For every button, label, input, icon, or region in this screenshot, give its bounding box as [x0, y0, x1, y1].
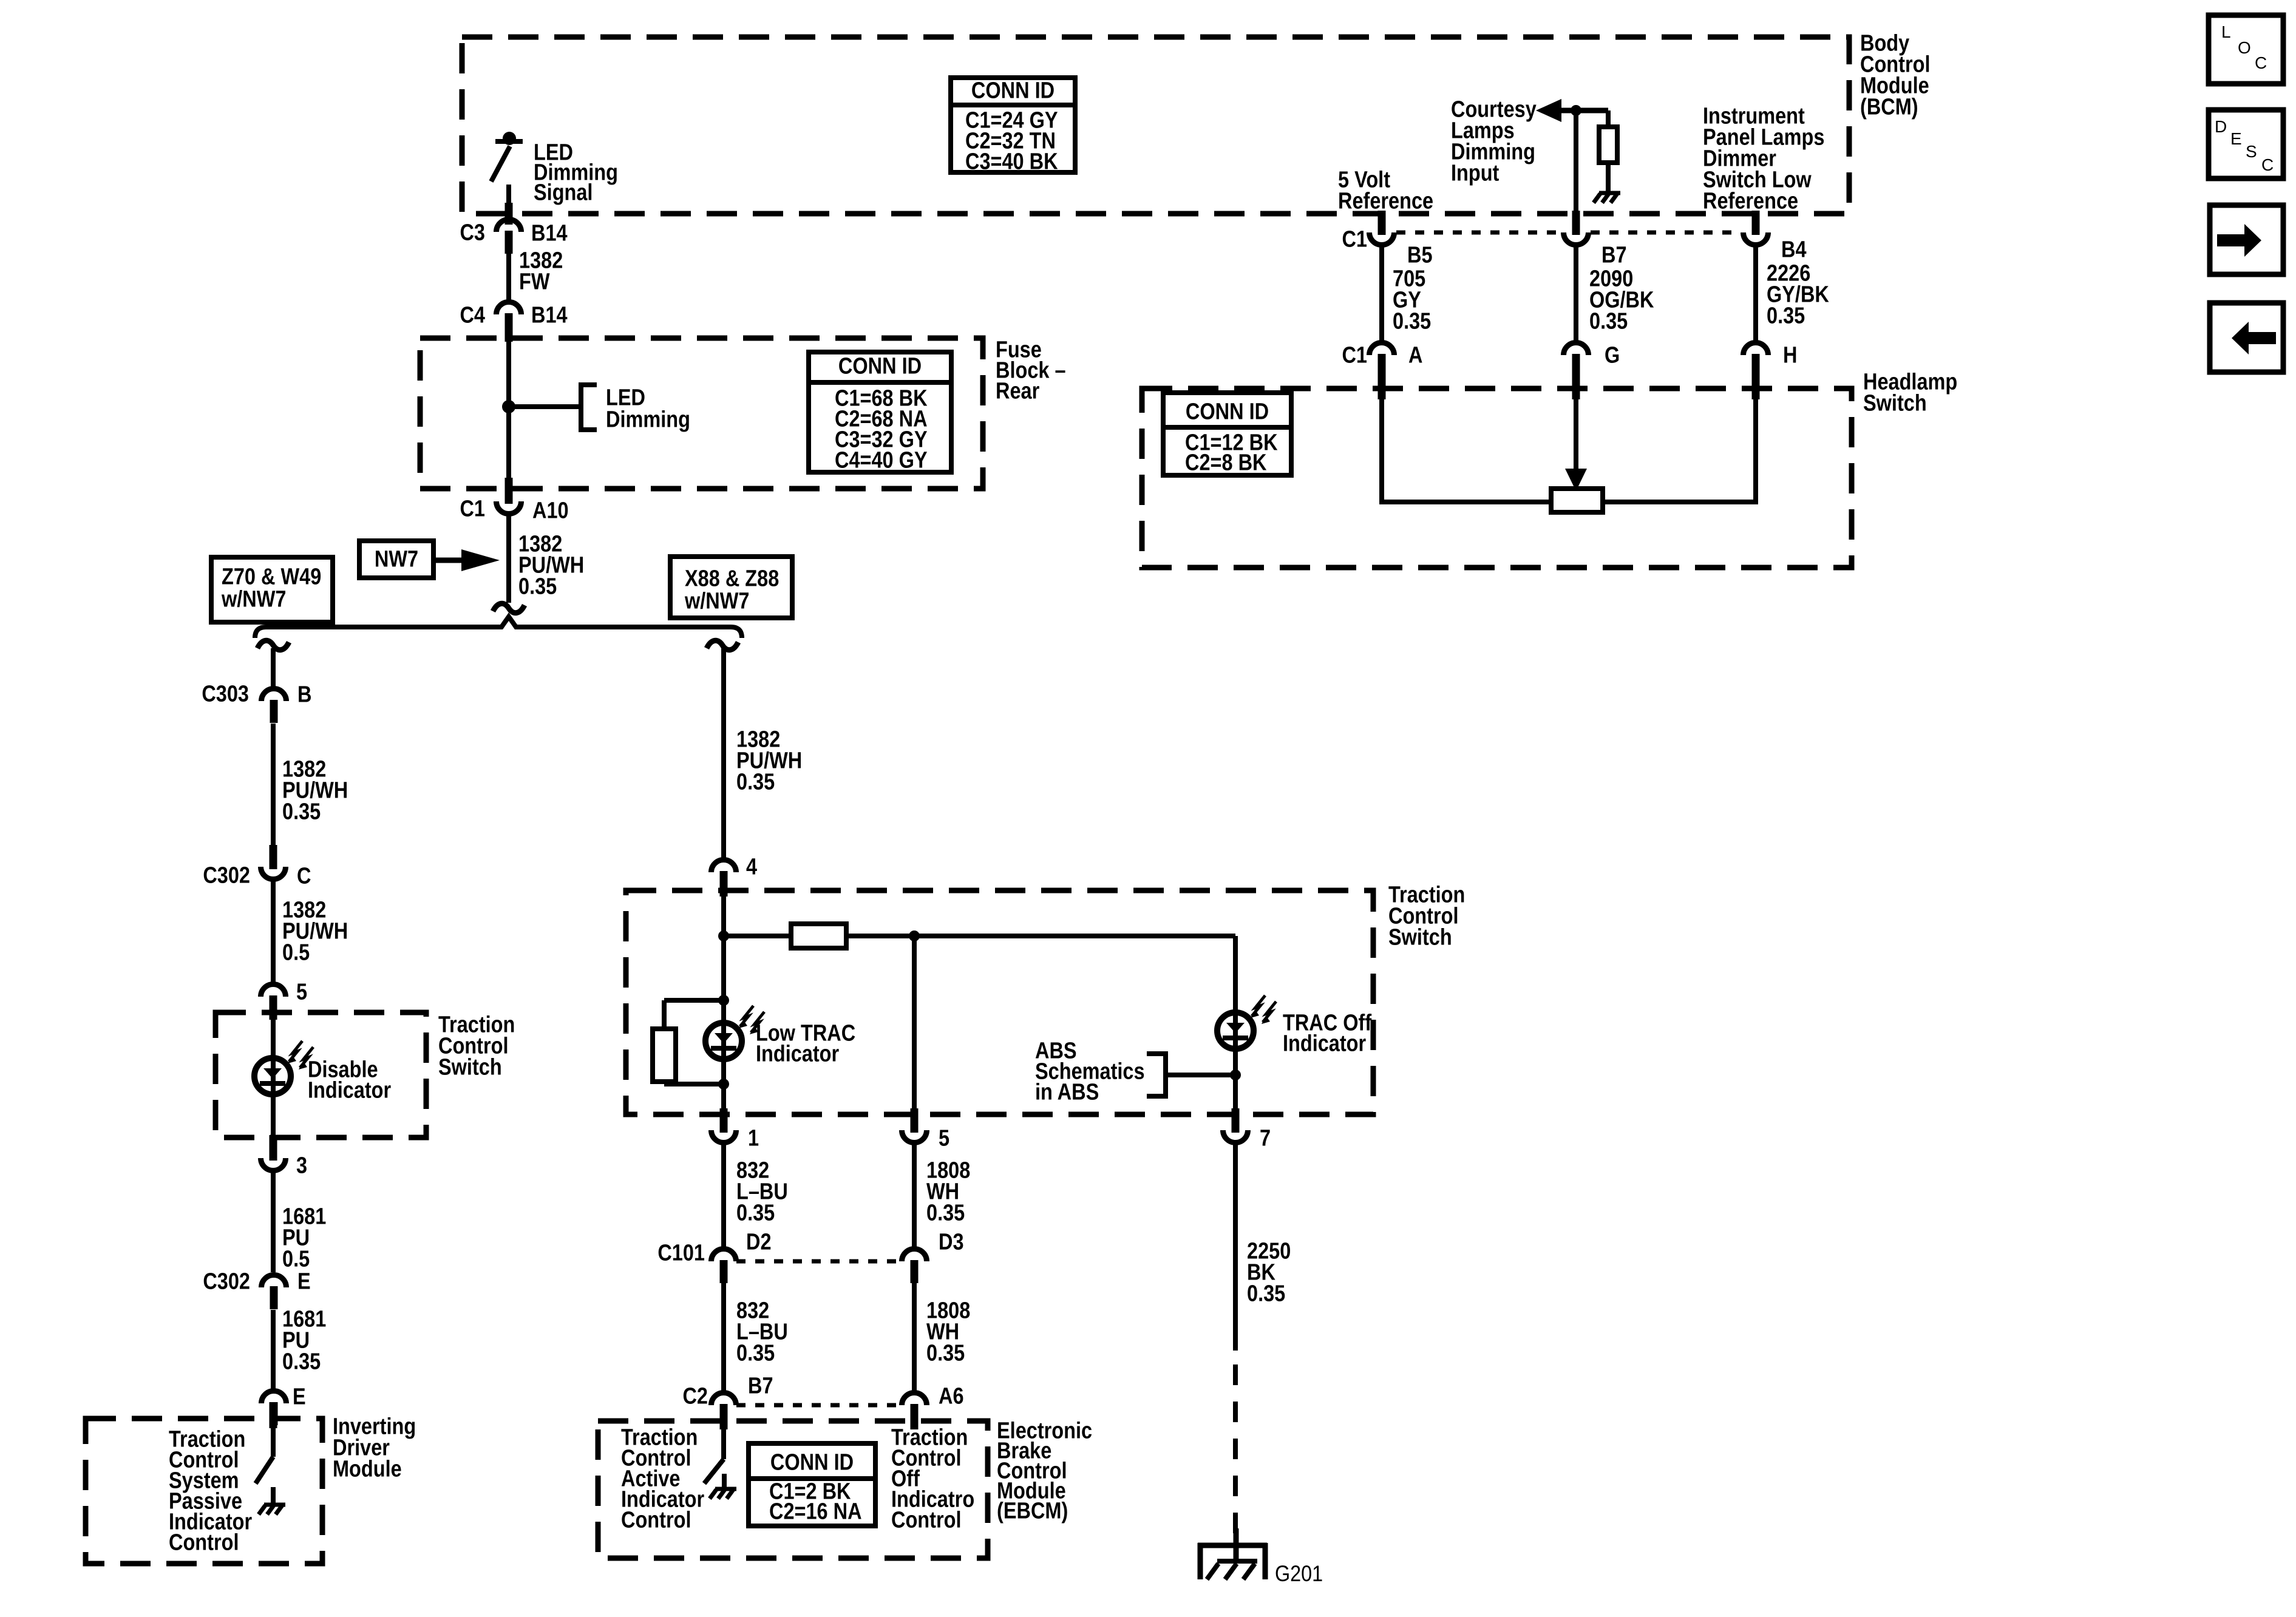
label Z70 & W49 w/NW7: [221, 564, 321, 612]
wire to internal resistor: [1606, 110, 1611, 127]
label C302 (C): [203, 863, 250, 888]
bracket ABS Schematics in ABS: [1147, 1051, 1166, 1099]
wire label 1382 PU/WH 0.35 (middle): [736, 727, 802, 795]
ground (IDM internal): [259, 1505, 285, 1514]
wire through Disable Indicator: [271, 1017, 276, 1137]
wire to parallel resistor: [664, 998, 724, 1003]
wire label 705 GY 0.35: [1393, 266, 1431, 334]
junction ABS wire: [1230, 1070, 1241, 1080]
label Fuse Block - Rear: [996, 337, 1066, 404]
connector pin 1: [712, 1108, 736, 1142]
connector B5: [1370, 211, 1394, 245]
label B14 (C3): [531, 220, 568, 246]
svg-text:5: 5: [296, 979, 307, 1005]
wire H to potentiometer: [1604, 395, 1756, 502]
wire parallel resistor bottom: [664, 1082, 724, 1086]
label C4: [460, 302, 485, 328]
Traction Control Switch (disable) dashed box: [216, 1012, 426, 1137]
svg-text:C: C: [297, 863, 311, 889]
wire C303 to C302: [271, 724, 276, 849]
wire label 832 L-BU 0.35 (lower): [736, 1298, 788, 1366]
svg-text:C302: C302: [203, 1269, 250, 1294]
svg-text:C1: C1: [1342, 226, 1367, 252]
connector C2 B7: [712, 1393, 736, 1428]
wire through TRAC Off indicator: [1233, 936, 1238, 1114]
svg-text:L: L: [2221, 22, 2231, 41]
CONN ID table (Headlamp Switch): [1163, 393, 1291, 475]
label Body Control Module (BCM): [1860, 30, 1930, 120]
label C1 (A10): [460, 496, 485, 521]
switch Traction Control Active Indicator Control: [704, 1428, 724, 1488]
connector A: [1370, 343, 1394, 378]
svg-text:C302: C302: [203, 863, 250, 888]
svg-text:E: E: [297, 1269, 311, 1294]
svg-text:B14: B14: [531, 302, 568, 328]
connector C3 B14: [497, 220, 521, 254]
label 5 Volt Reference: [1338, 167, 1433, 214]
junction courtesy lamps: [1571, 105, 1581, 116]
connector line C1 (BCM) left span: [1396, 231, 1561, 235]
svg-text:4: 4: [746, 854, 757, 880]
wire 7 to hidden splice: [1233, 1144, 1238, 1351]
label LED Dimming: [606, 385, 690, 432]
indicator arrows (Low TRAC): [739, 1006, 764, 1034]
Fuse Block - Rear dashed box: [420, 338, 983, 489]
wire label 1382 FW: [519, 248, 563, 294]
button LOC: [2209, 15, 2283, 84]
label TRAC Off Indicator: [1283, 1010, 1371, 1056]
svg-text:B4: B4: [1781, 237, 1807, 262]
wire 1382 FW C3 to C4: [506, 253, 511, 302]
svg-text:O: O: [2238, 38, 2251, 57]
svg-text:A6: A6: [939, 1383, 964, 1409]
label C303: [202, 681, 249, 707]
connector C302 E: [262, 1275, 287, 1310]
label C302 (E): [203, 1269, 250, 1294]
pin crossing TCS border (4): [720, 871, 728, 897]
svg-text:C1: C1: [460, 496, 485, 521]
CONN ID table (BCM): [951, 78, 1075, 174]
svg-text:A: A: [1408, 342, 1422, 368]
label Traction Control Off Indicatro Control: [891, 1425, 974, 1533]
connector C4 B14: [497, 302, 521, 336]
resistor (traction control switch): [791, 924, 846, 948]
Electronic Brake Control Module (EBCM) dashed box: [598, 1421, 988, 1558]
svg-text:B7: B7: [1601, 242, 1627, 268]
pin crossing EBCM border (A6): [911, 1404, 919, 1429]
option split brace: [255, 617, 742, 638]
label E (C302): [297, 1269, 311, 1294]
wire C302 to pin 5: [271, 880, 276, 984]
connector C1 A10: [497, 480, 521, 514]
resistor (parallel with Low TRAC LED): [653, 1029, 676, 1082]
connector B7: [1564, 211, 1589, 245]
svg-text:5: 5: [939, 1125, 949, 1151]
Inverting Driver Module dashed box: [86, 1419, 322, 1564]
label Disable Indicator: [308, 1057, 391, 1103]
Traction Control Switch dashed box: [626, 890, 1373, 1114]
wire B5 to A: [1379, 246, 1384, 341]
CONN ID table (Fuse Block): [809, 352, 951, 473]
label 5: [296, 979, 307, 1005]
svg-text:C3: C3: [460, 220, 485, 245]
label A10: [532, 498, 569, 523]
svg-text:E: E: [293, 1384, 306, 1409]
wire label 832 L-BU 0.35 (upper): [736, 1158, 788, 1225]
wire label 1808 WH 0.35 (upper): [926, 1158, 970, 1225]
svg-text:B: B: [297, 682, 311, 707]
label ABS Schematics in ABS: [1035, 1038, 1145, 1105]
label H: [1783, 342, 1797, 368]
svg-text:CONN ID: CONN ID: [971, 78, 1055, 103]
wire resistor to TRAC Off branch: [846, 934, 1235, 938]
wire D2 to C2 B7: [721, 1283, 726, 1391]
button back arrow: [2210, 303, 2283, 372]
svg-text:B5: B5: [1407, 242, 1433, 268]
ground (EBCM internal): [710, 1489, 736, 1499]
label C2: [682, 1383, 708, 1409]
label 4: [746, 854, 757, 880]
wire inside fuse block: [506, 340, 511, 480]
svg-text:3: 3: [296, 1153, 307, 1178]
label Traction Control Switch (right): [1388, 882, 1465, 950]
CONN ID table (EBCM): [749, 1443, 875, 1526]
connector line C1 (BCM) right span: [1591, 231, 1741, 235]
wire B4 to H: [1753, 246, 1758, 341]
svg-text:B7: B7: [748, 1373, 773, 1398]
switch Traction Control System Passive Indicator Control: [256, 1426, 273, 1503]
label A6: [939, 1383, 964, 1409]
svg-text:C2: C2: [682, 1383, 708, 1409]
wire label 2250 BK 0.35: [1247, 1238, 1291, 1306]
connector E (IDM): [262, 1391, 287, 1426]
label 1: [748, 1125, 759, 1151]
wire label 1382 PU/WH 0.5: [282, 897, 348, 965]
wire B7 to G: [1574, 246, 1578, 341]
continuation squiggle (top): [493, 603, 525, 612]
svg-text:1: 1: [748, 1125, 759, 1151]
label Courtesy Lamps Dimming Input: [1451, 97, 1537, 186]
button DESC: [2209, 110, 2283, 178]
wire ABS to TRAC Off indicator: [1166, 1073, 1235, 1077]
wire through Low TRAC indicator: [721, 893, 726, 1114]
svg-text:TRAC OffIndicator: TRAC OffIndicator: [1283, 1010, 1371, 1056]
wire label 2090 OG/BK 0.35: [1589, 266, 1654, 334]
wire 1 to C101 D2: [721, 1144, 726, 1247]
wire to option split: [506, 515, 511, 603]
potentiometer (headlamp switch): [1551, 489, 1603, 512]
ground G201: [1198, 1528, 1267, 1579]
pin crossing fuse block bottom border: [505, 478, 513, 504]
label C3: [460, 220, 485, 245]
wire resistor to ground: [1606, 163, 1611, 193]
Headlamp Switch dashed box: [1142, 388, 1852, 568]
wire label 1681 PU 0.35: [282, 1306, 326, 1374]
ground (BCM internal): [1594, 193, 1620, 203]
svg-text:C3=40 BK: C3=40 BK: [965, 149, 1058, 174]
wire label 1382 PU/WH 0.35 (left): [282, 756, 348, 824]
switch LED Dimming Signal (in BCM): [491, 132, 523, 205]
junction parallel resistor top: [718, 995, 729, 1006]
label NW7: [375, 546, 418, 572]
svg-text:CONN ID: CONN ID: [770, 1449, 854, 1475]
wire label 1382 PU/WH 0.35 (top): [518, 531, 584, 599]
wire C302 E to E: [271, 1310, 276, 1389]
svg-text:C: C: [2261, 155, 2274, 174]
arrow wiper (headlamp switch): [1565, 395, 1587, 491]
connector C101 D3: [902, 1249, 927, 1284]
pin crossing IDM border: [270, 1402, 277, 1428]
wire pin crossing BCM border: [505, 203, 513, 225]
connector line C101: [736, 1259, 901, 1264]
svg-text:G: G: [1605, 342, 1620, 368]
continuation squiggle (right branch): [707, 640, 738, 649]
LED TRAC Off Indicator: [1217, 1012, 1254, 1049]
label B4: [1781, 237, 1807, 262]
label 7: [1260, 1125, 1271, 1151]
svg-text:C4=40 GY: C4=40 GY: [835, 447, 928, 473]
junction parallel resistor bottom: [718, 1079, 729, 1090]
svg-text:H: H: [1783, 342, 1797, 368]
bracket LED Dimming: [581, 382, 597, 432]
label B: [297, 682, 311, 707]
svg-text:C1: C1: [1342, 342, 1367, 368]
svg-text:S: S: [2246, 142, 2257, 161]
junction to pin 5 wire: [909, 931, 920, 941]
wire label 2226 GY/BK 0.35: [1767, 260, 1829, 328]
label B5: [1407, 242, 1433, 268]
wire 5 to D3: [912, 1144, 917, 1247]
label Instrument Panel Lamps Dimmer Switch Low Reference: [1703, 103, 1824, 214]
pin crossing fuse block border: [505, 313, 513, 342]
label Traction Control Active Indicator Control: [621, 1425, 704, 1533]
label C1 (A row): [1342, 342, 1367, 368]
connector pin 7: [1223, 1108, 1248, 1142]
wire 1382 PU/WH to traction control switch: [721, 648, 726, 858]
wire (unshown) to G201: [1233, 1364, 1238, 1548]
svg-text:7: 7: [1260, 1125, 1271, 1151]
wire label 1681 PU 0.5: [282, 1204, 326, 1272]
label LED Dimming Signal: [534, 140, 618, 205]
svg-text:A10: A10: [532, 498, 569, 523]
wire 3 to C302 E: [271, 1171, 276, 1272]
label Electronic Brake Control Module (EBCM): [997, 1418, 1092, 1524]
wire to resistor: [724, 934, 791, 938]
svg-text:C4: C4: [460, 302, 485, 328]
label Low TRAC Indicator: [756, 1020, 855, 1066]
label 5 (EBCM): [939, 1125, 949, 1151]
pin crossing TCS bottom border: [270, 1135, 277, 1161]
connector H: [1744, 343, 1768, 378]
pin crossing headlamp border (A): [1378, 375, 1386, 399]
NW7 box: [359, 541, 433, 578]
label E (IDM): [293, 1384, 306, 1409]
svg-text:CONN ID: CONN ID: [1186, 399, 1269, 424]
connector pin 5 (switch): [261, 984, 286, 1019]
wire junction to pin 5 (EBCM): [912, 936, 917, 1114]
indicator arrows (Disable): [288, 1041, 313, 1070]
connector C101 D2: [712, 1249, 736, 1284]
connector pin 5 (EBCM): [902, 1108, 927, 1142]
label C1 (B5 row): [1342, 226, 1367, 252]
wire label 1808 WH 0.35 (lower): [926, 1298, 970, 1366]
svg-text:C2=8 BK: C2=8 BK: [1185, 450, 1267, 475]
label G: [1605, 342, 1620, 368]
connector C303 B: [262, 689, 287, 724]
wire tap to LED Dimming: [509, 404, 579, 409]
connector line C2/A6: [736, 1403, 901, 1408]
LED Disable Indicator: [254, 1058, 291, 1094]
junction at resistor branch: [718, 931, 729, 941]
label A: [1408, 342, 1422, 368]
label Traction Control System Passive Indicator Control: [169, 1426, 252, 1555]
pin crossing headlamp border (G): [1572, 375, 1580, 399]
wire D3 to A6: [912, 1283, 917, 1391]
svg-text:D3: D3: [939, 1229, 964, 1255]
svg-text:C: C: [2255, 53, 2267, 72]
label X88 & Z88 w/NW7: [684, 566, 779, 614]
pin crossing EBCM border: [720, 1404, 728, 1429]
svg-text:E: E: [2230, 129, 2242, 148]
label C: [297, 863, 311, 889]
pin into C302 C: [270, 847, 277, 868]
pin crossing headlamp border (H): [1752, 375, 1760, 399]
label Traction Control Switch (left): [438, 1012, 515, 1080]
label 3: [296, 1153, 307, 1178]
label B7 (EBCM): [748, 1373, 773, 1398]
label D2: [746, 1229, 772, 1255]
option box Z70 & W49 w/NW7: [211, 557, 333, 622]
wire A to potentiometer: [1382, 395, 1550, 502]
label Inverting Driver Module: [333, 1414, 416, 1482]
junction to LED Dimming: [502, 400, 515, 413]
connector pin 4: [712, 859, 736, 894]
connector pin 3 (switch): [261, 1136, 286, 1170]
continuation squiggle (left branch): [257, 640, 289, 649]
parallel resistor branch: [662, 1000, 667, 1084]
resistor (BCM internal): [1599, 127, 1617, 163]
label B14 (C4): [531, 302, 568, 328]
pin crossing TCS border: [270, 995, 277, 1020]
arrow Courtesy Lamps Dimming Input: [1536, 99, 1608, 122]
label B7: [1601, 242, 1627, 268]
arrow NW7 to wire: [433, 549, 500, 571]
button forward arrow: [2210, 205, 2283, 274]
connector G: [1564, 343, 1589, 378]
option box X88 & Z88 w/NW7: [670, 557, 792, 618]
connector B4: [1744, 211, 1768, 245]
label Headlamp Switch: [1863, 369, 1957, 416]
svg-text:C2=16 NA: C2=16 NA: [769, 1499, 862, 1524]
svg-text:B14: B14: [531, 220, 568, 246]
svg-text:D: D: [2215, 117, 2227, 136]
svg-text:CONN ID: CONN ID: [838, 353, 922, 379]
label C101: [657, 1240, 705, 1266]
indicator arrows (TRAC Off): [1251, 995, 1276, 1024]
wire to B7: [1574, 110, 1578, 214]
LED Low TRAC Indicator: [705, 1023, 742, 1059]
wire to C303: [271, 648, 276, 688]
connector A6: [902, 1393, 927, 1428]
svg-text:G201: G201: [1275, 1562, 1323, 1586]
label G201: [1275, 1562, 1323, 1586]
svg-text:NW7: NW7: [375, 546, 418, 572]
label D3: [939, 1229, 964, 1255]
Body Control Module (BCM) dashed box: [462, 37, 1849, 214]
svg-text:C303: C303: [202, 681, 249, 707]
svg-text:C101: C101: [657, 1240, 705, 1266]
svg-text:D2: D2: [746, 1229, 772, 1255]
connector C302 C: [261, 845, 286, 879]
